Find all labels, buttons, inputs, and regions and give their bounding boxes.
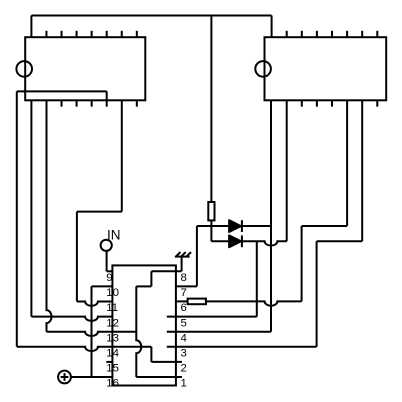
svg-text:13: 13 bbox=[106, 332, 119, 344]
wire U1 pin7 drop bbox=[121, 100, 123, 211]
wire interior drop pin14 bbox=[150, 347, 152, 362]
chassis ground hatch 2 bbox=[181, 252, 186, 257]
wire IN lead bbox=[106, 251, 108, 271]
svg-text:1: 1 bbox=[181, 378, 187, 390]
IC U2 top pin 2 stub bbox=[286, 31, 288, 37]
wire to U2 pin6 horizontal bbox=[302, 225, 348, 227]
wire U3 pin4 horizontal bbox=[167, 331, 271, 333]
IC U2 top pin 6 stub bbox=[346, 31, 348, 37]
IC U1 bottom pin 3 stub bbox=[61, 100, 63, 106]
wire U3 pin13 horizontal with hop bbox=[47, 332, 137, 336]
wire resistor R1 top lead bbox=[210, 16, 212, 203]
wire top bus horizontal bbox=[31, 15, 271, 17]
chassis ground hatch 1 bbox=[175, 252, 180, 257]
svg-text:7: 7 bbox=[181, 287, 187, 299]
svg-text:11: 11 bbox=[106, 302, 118, 314]
wire U1 pin2 drop with hop bbox=[47, 100, 52, 331]
svg-text:8: 8 bbox=[181, 272, 187, 284]
IC U1 top pin 6 stub bbox=[106, 31, 108, 37]
wire to U2 pin7 horizontal bbox=[317, 240, 363, 242]
wire node to U3 pin7 vertical bbox=[196, 226, 198, 286]
IC U2 bottom pin 8 stub bbox=[376, 100, 378, 106]
IC U2 top pin 4 stub bbox=[316, 31, 318, 37]
diode D1 cathode bar bbox=[241, 220, 243, 232]
wire chassis lead bbox=[181, 257, 183, 272]
IC U1 top pin 5 stub bbox=[91, 31, 93, 37]
wire D2 cathode with hop to U2 pin2 bbox=[242, 241, 287, 245]
IC U2 top pin 5 stub bbox=[331, 31, 333, 37]
wire drop to row11 bbox=[76, 212, 78, 302]
IC U2 body bbox=[265, 37, 387, 100]
resistor R1 bbox=[208, 202, 214, 220]
wire interior to U3 pin1 bbox=[136, 376, 182, 378]
wire U3 pin10 horizontal bbox=[92, 285, 113, 287]
wire U2 pin1 drop to U3 pin4 bbox=[270, 100, 272, 331]
resistor R2 bbox=[188, 299, 206, 305]
svg-text:14: 14 bbox=[106, 348, 119, 360]
wire interior to U3 pin2 bbox=[151, 361, 182, 363]
IC U1 top pin 2 stub bbox=[45, 31, 47, 37]
wire U1 pin1 top riser bbox=[30, 16, 32, 38]
wire U3 pin12 horizontal with hop bbox=[31, 317, 112, 321]
svg-text:10: 10 bbox=[106, 287, 119, 299]
wire U1 pin6 stub drop bbox=[106, 91, 108, 106]
wire U2 pin1 top riser bbox=[271, 16, 273, 38]
IC U1 bottom pin 8 stub bbox=[136, 100, 138, 106]
IC U2 top pin 3 stub bbox=[301, 31, 303, 37]
wire U3 pin3 horizontal bbox=[167, 346, 317, 348]
IC U2 bottom pin 5 stub bbox=[331, 100, 333, 106]
wire interior shelf pin8 bbox=[136, 285, 151, 287]
wire U3 pin8 horizontal bbox=[151, 270, 181, 272]
wire U2 pin2 drop bbox=[286, 100, 288, 241]
IC U2 top pin 8 stub bbox=[376, 31, 378, 37]
svg-text:4: 4 bbox=[181, 332, 187, 344]
wire pin3 riser bbox=[316, 241, 318, 346]
IC U2 pin-1 marker circle bbox=[255, 61, 271, 77]
IC U1 bottom pin 4 stub bbox=[76, 100, 78, 106]
IC U1 top pin 8 stub bbox=[136, 31, 138, 37]
IC U1 top pin 3 stub bbox=[61, 31, 63, 37]
IC U1 bottom pin 5 stub bbox=[91, 100, 93, 106]
wire U1 pin6 chip-through horizontal bbox=[17, 90, 107, 92]
IC U2 bottom pin 4 stub bbox=[316, 100, 318, 106]
terminal plus supply circle bbox=[58, 371, 71, 384]
wire left trunk vertical bbox=[16, 91, 18, 346]
wire U1 pin1 drop bbox=[30, 100, 32, 316]
svg-text:5: 5 bbox=[181, 317, 187, 329]
wire U3 pin6 lead bbox=[176, 300, 188, 302]
wire R2 riser bbox=[301, 226, 303, 301]
diode D2 triangle bbox=[229, 235, 241, 247]
wire U3 pin5 horizontal bbox=[167, 316, 257, 318]
IC U1 pin-1 marker circle bbox=[16, 61, 32, 77]
wire diode D2 anode horizontal bbox=[211, 240, 229, 242]
wire R2 right lead with hop bbox=[206, 301, 302, 305]
IC U3 body bbox=[112, 265, 175, 385]
wire shelf U1 pin7 bbox=[77, 211, 122, 213]
wire diode D1 anode horizontal bbox=[197, 225, 229, 227]
wire interior drop pin8 bbox=[150, 271, 152, 286]
svg-text:15: 15 bbox=[106, 363, 119, 375]
wire pin10 drop to supply rail bbox=[91, 286, 93, 377]
IC U2 bottom pin 3 stub bbox=[301, 100, 303, 106]
svg-text:3: 3 bbox=[181, 348, 187, 360]
chassis ground bar bbox=[175, 256, 189, 258]
wire D1 cathode to node column bbox=[242, 225, 271, 227]
wire U3 pin9 horizontal bbox=[107, 270, 113, 272]
wire U3 pin11 horizontal with hop bbox=[77, 302, 113, 306]
terminal IN circle bbox=[101, 240, 112, 251]
IC U1 top pin 4 stub bbox=[76, 31, 78, 37]
svg-text:IN: IN bbox=[107, 227, 121, 242]
wire supply rail to U3 pin16 bbox=[71, 376, 113, 378]
wire U2 pin7 drop bbox=[361, 100, 363, 241]
IC U1 body bbox=[25, 37, 145, 100]
IC U1 top pin 7 stub bbox=[121, 31, 123, 37]
svg-text:6: 6 bbox=[181, 302, 187, 314]
svg-text:12: 12 bbox=[106, 317, 119, 329]
wire R1 bottom lead to diode anodes bbox=[210, 220, 212, 241]
wire interior vertical with hop bbox=[136, 286, 141, 377]
IC U3 pin 15 stub bbox=[106, 361, 112, 363]
diode D1 triangle bbox=[229, 220, 241, 232]
chassis ground hatch 3 bbox=[186, 252, 191, 257]
diode D2 cathode bar bbox=[241, 235, 243, 247]
IC U2 top pin 7 stub bbox=[361, 31, 363, 37]
terminal plus cross bbox=[61, 373, 69, 381]
wire U3 pin14 horizontal with hop bbox=[17, 347, 152, 351]
svg-text:2: 2 bbox=[181, 363, 187, 375]
wire U2 pin6 drop bbox=[346, 100, 348, 226]
svg-text:16: 16 bbox=[106, 378, 119, 390]
wire U3 pin7 horizontal bbox=[176, 285, 197, 287]
wire pin5 riser to D2 net bbox=[256, 241, 258, 316]
svg-text:9: 9 bbox=[106, 272, 112, 284]
